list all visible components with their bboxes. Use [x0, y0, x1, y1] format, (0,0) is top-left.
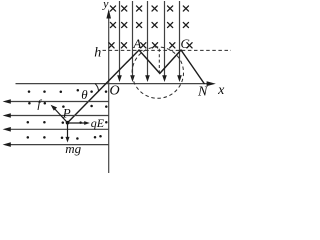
B field x symbols row 3: [109, 43, 192, 48]
svg-text:N: N: [197, 85, 208, 100]
point P dot: [66, 121, 70, 125]
left arrowheads: [3, 99, 11, 147]
B field dots row 1: [28, 89, 108, 93]
svg-text:h: h: [94, 46, 101, 61]
E field lines pointing left (lower region): [11, 102, 109, 145]
svg-text:mg: mg: [65, 141, 81, 156]
B field dots row 3: [27, 121, 108, 124]
B field x symbols row 1: [110, 6, 188, 11]
svg-text:y: y: [102, 0, 109, 10]
E field lines pointing down (upper region): [120, 1, 180, 76]
B field x symbols row 2: [110, 22, 188, 27]
svg-text:qE: qE: [91, 116, 105, 130]
dashed radius segment: [158, 49, 160, 73]
x-axis arrowhead: [207, 81, 216, 86]
y-axis: [108, 11, 110, 173]
svg-text:C: C: [180, 36, 189, 51]
E field arrowheads down: [117, 75, 182, 82]
y-axis arrowhead: [106, 9, 111, 19]
theta angle arc: [95, 84, 98, 92]
force vector mg: [67, 123, 69, 139]
particle trajectory P-O-A: [68, 50, 205, 123]
svg-text:x: x: [217, 83, 225, 98]
svg-text:θ: θ: [81, 87, 88, 102]
dashed line at height h: [103, 49, 232, 51]
svg-text:O: O: [110, 84, 120, 99]
dashed circle: [132, 47, 183, 98]
B field dots row 2: [28, 102, 107, 108]
x-axis: [16, 83, 209, 85]
force vector qE: [68, 122, 86, 124]
B field dots row 4: [27, 135, 102, 140]
svg-text:A: A: [132, 36, 141, 51]
force vector f: [54, 108, 68, 123]
